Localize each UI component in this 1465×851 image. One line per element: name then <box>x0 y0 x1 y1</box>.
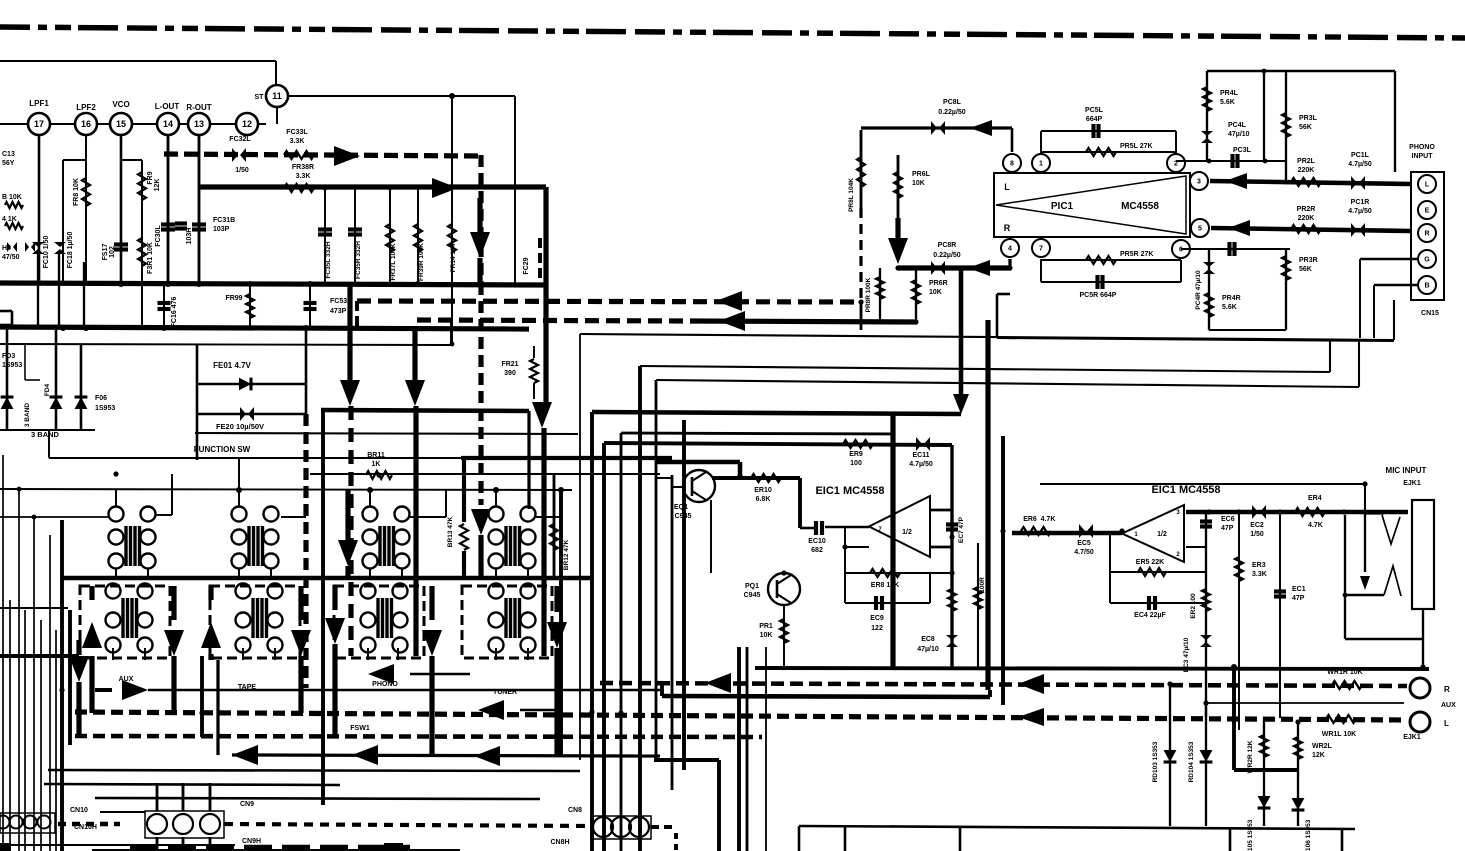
arrow up flank 1 <box>89 586 94 600</box>
pin 2 of PIC1 <box>1167 154 1185 172</box>
svg-text:682: 682 <box>811 547 823 554</box>
svg-text:3.3K: 3.3K <box>290 138 305 145</box>
resistor FR37L 100K <box>389 187 391 283</box>
diode FD4 <box>55 327 58 430</box>
op-amp EIC1 half 2 <box>1122 505 1184 562</box>
svg-text:1S953: 1S953 <box>95 405 115 412</box>
wire feedback L verticals <box>1040 131 1042 154</box>
svg-text:FC53: FC53 <box>330 298 347 305</box>
wire jack switch arrow <box>1364 513 1366 572</box>
capacitor FC29 dashed vertical <box>538 238 542 285</box>
switch cluster row2 1 <box>106 584 121 599</box>
wire pin4 to PC8R line <box>1008 259 1011 268</box>
svg-text:FR14 104: FR14 104 <box>450 243 457 272</box>
svg-text:13: 13 <box>194 119 204 129</box>
svg-text:47P: 47P <box>1221 525 1234 532</box>
wire emitter down <box>710 500 712 573</box>
wire - top dash-dot border line <box>0 27 1465 38</box>
svg-text:LPF2: LPF2 <box>76 103 96 112</box>
connector CN9 <box>145 811 224 838</box>
wire aux mid line <box>1206 702 1404 704</box>
thick vertical x1003 <box>1001 436 1005 705</box>
capacitor EC3 47u/10 <box>1200 635 1212 640</box>
svg-text:10K: 10K <box>929 289 942 296</box>
svg-text:5.6K: 5.6K <box>1220 99 1235 106</box>
svg-text:10K: 10K <box>912 180 925 187</box>
svg-text:PR4L: PR4L <box>1220 90 1239 97</box>
svg-text:FE20 10µ/50V: FE20 10µ/50V <box>216 422 264 431</box>
thick vertical with down arrow A <box>347 285 352 380</box>
svg-text:RD106 1S953: RD106 1S953 <box>1305 819 1312 851</box>
wire pin14 down <box>167 135 170 285</box>
svg-text:1/50: 1/50 <box>235 167 249 174</box>
wire corner x654 to x719 <box>654 758 719 762</box>
wire phono L line <box>1210 181 1411 184</box>
svg-text:4.7µ/50: 4.7µ/50 <box>1348 161 1372 168</box>
svg-text:3 BAND: 3 BAND <box>31 430 60 439</box>
capacitor EC9 122 <box>845 602 930 604</box>
svg-text:PR6R: PR6R <box>929 280 948 287</box>
svg-text:1: 1 <box>1039 161 1043 168</box>
svg-text:FR8 10K: FR8 10K <box>73 178 80 206</box>
wire cluster feed line <box>0 489 572 490</box>
capacitor FC10 1/50 <box>32 242 44 247</box>
resistor PR3L 56K <box>1285 71 1287 181</box>
op-amp EIC1 half 1 <box>869 496 930 557</box>
wire mid rail vertical <box>1263 71 1265 161</box>
svg-text:PR2R: PR2R <box>1297 206 1316 213</box>
svg-text:1/2: 1/2 <box>1157 531 1167 538</box>
wire pin8 drop <box>1011 128 1014 152</box>
svg-text:BR12 47K: BR12 47K <box>563 540 570 571</box>
wire feedback R verticals <box>1040 259 1042 282</box>
svg-text:FC35L 332H: FC35L 332H <box>325 241 332 278</box>
svg-text:3 BAND: 3 BAND <box>24 403 31 428</box>
svg-text:WR1R 10K: WR1R 10K <box>1327 669 1362 676</box>
wire bundle link to collector <box>656 460 740 465</box>
svg-text:EC8: EC8 <box>921 636 935 643</box>
svg-text:PR1: PR1 <box>759 623 773 630</box>
wire drops to clusters row1 <box>115 490 117 506</box>
capacitor FC16 476 <box>163 285 165 327</box>
svg-text:56K: 56K <box>1299 124 1312 131</box>
switch cluster row1 C <box>363 507 378 522</box>
wire long top line to mic <box>1040 483 1365 485</box>
svg-text:14: 14 <box>163 119 173 129</box>
transistor EQ1 C945 <box>683 470 715 502</box>
svg-text:G: G <box>1424 257 1430 264</box>
resistor BR13 47K <box>461 456 672 460</box>
svg-text:11: 11 <box>272 91 282 101</box>
arrow down x546 <box>532 402 552 428</box>
capacitor PC1L 4.7u/50 <box>1351 176 1357 190</box>
pin 1 of PIC1 <box>1032 154 1050 172</box>
wire left edge box <box>0 310 12 313</box>
svg-text:B 10K: B 10K <box>2 194 22 201</box>
op-amp PIC1 box <box>994 173 1190 237</box>
wire segments between pins <box>0 123 28 125</box>
arrow left on R output line <box>719 311 745 331</box>
wire left horizontals <box>0 607 68 609</box>
resistor F3R1 10K <box>138 238 146 266</box>
arrow left aux R 1 <box>705 673 731 693</box>
capacitor EC10 682 <box>800 527 814 530</box>
connector CN10 <box>0 813 55 833</box>
resistor PR2L 220K <box>1291 178 1321 186</box>
arrow right on R line <box>432 178 458 198</box>
wire thin bus 3 <box>0 344 451 345</box>
wire columns between buses left <box>37 254 39 327</box>
svg-text:AUX: AUX <box>1441 702 1456 709</box>
wire pin4 line corner <box>996 294 999 338</box>
svg-text:220K: 220K <box>1298 167 1315 174</box>
svg-text:EC2: EC2 <box>1250 522 1264 529</box>
svg-text:47P: 47P <box>1292 595 1305 602</box>
svg-text:CN10: CN10 <box>70 807 88 814</box>
wire pin17 down to bus <box>38 135 41 283</box>
svg-text:EC4 22µF: EC4 22µF <box>1134 612 1166 619</box>
arrow left phono R <box>1228 220 1250 236</box>
diode RD104 1S353 <box>1205 703 1207 826</box>
svg-text:PR8L 104K: PR8L 104K <box>848 178 855 212</box>
svg-text:E: E <box>1425 208 1430 215</box>
wire bottom rail of phono network <box>1209 329 1286 331</box>
svg-text:100: 100 <box>850 460 862 467</box>
switch cluster row1 B <box>232 507 247 522</box>
resistor PR4L 5.6K <box>1206 71 1208 128</box>
svg-text:RD104 1S353: RD104 1S353 <box>1188 741 1195 782</box>
svg-text:ER6: ER6 <box>1023 516 1037 523</box>
capacitor EC6 47P <box>1205 512 1207 717</box>
svg-text:EQ1: EQ1 <box>674 504 688 511</box>
resistor WR1R 10K <box>1332 681 1362 689</box>
svg-text:EC7 47P: EC7 47P <box>958 516 965 543</box>
feedback loop stage2 <box>1109 533 1111 603</box>
svg-text:PR5L 27K: PR5L 27K <box>1120 143 1153 150</box>
node pin 12 <box>236 113 258 135</box>
pin 3 of PIC1 <box>1190 172 1208 190</box>
capacitor FC35L 332H <box>324 187 326 283</box>
resistor WR2R 12K <box>1263 717 1265 770</box>
svg-text:TAPE: TAPE <box>238 684 256 691</box>
svg-text:INPUT: INPUT <box>1412 153 1434 160</box>
diode RD105 1S953 <box>1263 770 1265 826</box>
wire PC8R line <box>898 265 1010 270</box>
svg-text:EIC1 MC4558: EIC1 MC4558 <box>1151 484 1220 496</box>
arrow left aux L <box>1018 708 1044 726</box>
svg-text:56Y: 56Y <box>2 160 15 167</box>
wire dashed from CN10 <box>58 822 120 827</box>
svg-text:16: 16 <box>81 119 91 129</box>
wire stubs under row2 clusters <box>112 648 114 660</box>
junction dots texture <box>376 472 381 477</box>
svg-text:CN9H: CN9H <box>242 838 261 845</box>
svg-text:4: 4 <box>1008 246 1012 253</box>
capacitor EC7 47P <box>946 522 958 526</box>
arrow down in switch area 2 <box>471 509 491 535</box>
wire FE right rail <box>305 328 308 414</box>
wire long line y443 thick <box>604 443 952 445</box>
svg-text:3.3K: 3.3K <box>296 173 311 180</box>
wire R-channel thick line <box>199 184 546 189</box>
svg-text:BR11: BR11 <box>367 452 385 459</box>
resistor FR14 104 <box>451 96 453 345</box>
svg-text:FC10 1/50: FC10 1/50 <box>43 236 50 269</box>
arrow left PHONO <box>368 664 394 684</box>
wire vertical x561 <box>559 490 563 756</box>
arrow down flank 4 <box>298 586 303 620</box>
svg-text:12K: 12K <box>1312 752 1325 759</box>
svg-text:PC4R 47µ/10: PC4R 47µ/10 <box>1195 270 1202 310</box>
wire long line y412 thick <box>592 412 961 414</box>
svg-text:PR4R: PR4R <box>1222 295 1241 302</box>
resistor PR5L 27K <box>1041 151 1176 153</box>
capacitor FE20 10u/50V <box>197 413 306 416</box>
svg-text:FR21: FR21 <box>501 361 518 368</box>
svg-text:FR37L 100K: FR37L 100K <box>390 243 397 280</box>
resistor BR12 47K <box>553 474 556 578</box>
jack contact springs <box>1382 515 1400 544</box>
thick vertical x893 <box>890 412 895 668</box>
svg-text:100R: 100R <box>979 577 986 593</box>
svg-text:F06: F06 <box>95 395 107 402</box>
capacitor FC30L 103H <box>161 222 175 226</box>
svg-text:FD4: FD4 <box>44 383 51 396</box>
svg-text:47/50: 47/50 <box>2 254 20 261</box>
svg-text:4.7µ/50: 4.7µ/50 <box>909 461 933 468</box>
svg-text:FR38R: FR38R <box>292 164 314 171</box>
svg-text:ER3: ER3 <box>1252 562 1266 569</box>
svg-text:VCO: VCO <box>112 100 129 109</box>
wire dashed from CN8 <box>651 825 676 829</box>
wire big bottom rectangle <box>799 826 1355 829</box>
wire long line y380 <box>656 380 1359 387</box>
svg-text:R: R <box>1444 685 1450 694</box>
wire left vertical with down arrow <box>76 640 81 655</box>
pin 6 of PIC1 <box>1172 240 1190 258</box>
capacitor FC35R 332H <box>354 187 356 283</box>
svg-text:12K: 12K <box>154 179 161 192</box>
svg-text:PHONO: PHONO <box>372 681 398 688</box>
svg-text:103P: 103P <box>213 226 230 233</box>
svg-text:PC5R 664P: PC5R 664P <box>1080 292 1117 299</box>
wire long line y433 <box>621 433 893 434</box>
pin G of CN15 <box>1418 250 1436 268</box>
svg-text:FC30L: FC30L <box>155 225 162 247</box>
switch cluster row2 2 <box>236 584 251 599</box>
svg-text:RD105 1S953: RD105 1S953 <box>1247 819 1254 851</box>
capacitor EC1 47P <box>1279 512 1281 718</box>
wire - thin feed line to pin 11 <box>0 60 276 62</box>
vertical bundle left <box>579 334 581 760</box>
svg-text:10K: 10K <box>760 632 773 639</box>
svg-text:47µ/10: 47µ/10 <box>1228 131 1250 138</box>
wire cluster top-right links <box>156 514 172 516</box>
svg-text:FC33L: FC33L <box>286 129 308 136</box>
wire dashed corner down <box>355 301 359 330</box>
svg-text:FUNCTION SW: FUNCTION SW <box>194 445 251 454</box>
wire long line y334 <box>580 334 1394 340</box>
capacitor FS17 102 <box>114 242 128 246</box>
wire R-side network <box>1181 248 1290 250</box>
wire bottom-left horizontals <box>48 770 580 771</box>
svg-text:FC31B: FC31B <box>213 217 235 224</box>
jack AUX R <box>1410 678 1430 698</box>
wire solid line y696 <box>662 696 990 697</box>
resistor WR2L 12K <box>1297 722 1299 826</box>
svg-text:220K: 220K <box>1298 215 1315 222</box>
wire left thick vertical 1 <box>60 520 64 851</box>
svg-text:EIC1 MC4558: EIC1 MC4558 <box>815 485 884 497</box>
wire contact common <box>1345 594 1384 597</box>
svg-text:12: 12 <box>242 119 252 129</box>
svg-text:1/2: 1/2 <box>902 529 912 536</box>
svg-text:PR2L: PR2L <box>1297 158 1316 165</box>
svg-text:FR99: FR99 <box>225 295 242 302</box>
wire bottom dashed bar <box>130 845 410 851</box>
svg-text:4.7K: 4.7K <box>1308 522 1323 529</box>
pin 5 of PIC1 <box>1191 219 1209 237</box>
dashed vertical x880 continuation <box>860 302 863 330</box>
wire fd box <box>0 429 95 431</box>
svg-text:L: L <box>1004 182 1010 192</box>
resistor PR4R 5.6K <box>1205 293 1213 317</box>
junction dots on buses <box>36 280 42 286</box>
resistor WR1L 10K <box>1326 715 1356 723</box>
svg-text:FC35R 332H: FC35R 332H <box>355 241 362 279</box>
wire phono R line <box>1211 228 1411 231</box>
resistor FR99 <box>249 285 251 327</box>
svg-text:FC29: FC29 <box>523 257 530 274</box>
wire FE left rail <box>196 344 199 460</box>
arrow down flank 6 <box>429 586 434 620</box>
connector CN8 <box>591 816 651 839</box>
wire pin16 down <box>85 135 87 283</box>
svg-text:PR6L: PR6L <box>912 171 931 178</box>
resistor PR3R 56K <box>1285 249 1287 330</box>
resistor FR21 390 <box>533 346 535 358</box>
op-amp PIC1 triangle <box>996 176 1186 234</box>
switch cluster row2 box 3 <box>334 586 424 658</box>
wire dashed aux R line <box>600 683 1407 686</box>
svg-text:PIC1: PIC1 <box>1051 201 1074 212</box>
wire from pin 11 to line <box>288 95 515 97</box>
wire jack to ground line <box>1345 638 1423 641</box>
resistor on x1209 <box>1202 589 1210 611</box>
dashed vertical mid <box>303 414 308 688</box>
svg-text:1S953: 1S953 <box>2 362 22 369</box>
svg-text:RD103 1S353: RD103 1S353 <box>1152 741 1159 782</box>
thick vertical x961 with arrow <box>959 269 964 396</box>
svg-text:3.3K: 3.3K <box>1252 571 1267 578</box>
arrow left PC8R line <box>968 260 990 276</box>
wire opamp2 output line <box>1186 510 1408 515</box>
svg-text:PC3L: PC3L <box>1233 147 1252 154</box>
wire phono B <box>1374 284 1418 287</box>
svg-text:CN9: CN9 <box>240 801 254 808</box>
pin R of CN15 <box>1418 224 1436 242</box>
svg-text:EC6: EC6 <box>1221 516 1235 523</box>
wire thick link line y410 <box>321 410 529 411</box>
svg-text:LPF1: LPF1 <box>29 99 49 108</box>
svg-text:4.7µ/50: 4.7µ/50 <box>1348 208 1372 215</box>
pin E of CN15 <box>1418 201 1436 219</box>
svg-text:56K: 56K <box>1299 266 1312 273</box>
capacitor PC5R 664P <box>1041 281 1181 283</box>
svg-text:PR8R 100K: PR8R 100K <box>865 277 872 312</box>
arrow left aux R 2 <box>1018 674 1044 694</box>
wire loop right vertical x952 <box>950 445 953 668</box>
arrow up flank 3 <box>208 586 213 600</box>
wire dashed tape bus 1 <box>75 712 1407 720</box>
capacitor EC8 47u/10 <box>946 635 958 640</box>
svg-text:5.6K: 5.6K <box>1222 304 1237 311</box>
resistor FR21 390 and down arrow C <box>543 187 548 404</box>
capacitor FC30R 103H <box>192 222 206 226</box>
svg-text:CN15: CN15 <box>1421 310 1439 317</box>
svg-text:PR5R 27K: PR5R 27K <box>1120 251 1153 258</box>
diode FD6 1S953 <box>80 344 83 430</box>
svg-text:PC8L: PC8L <box>943 99 962 106</box>
svg-text:EC9: EC9 <box>870 615 884 622</box>
resistor PR6R 10K <box>915 268 917 322</box>
svg-text:WR1L 10K: WR1L 10K <box>1322 731 1357 738</box>
capacitor PC1R 4.7u/50 <box>1351 223 1357 237</box>
wire left thick vertical 2 <box>68 610 72 745</box>
svg-text:BR13 47K: BR13 47K <box>447 517 454 548</box>
thick vertical with down arrow B <box>412 329 417 380</box>
svg-text:0.22µ/50: 0.22µ/50 <box>938 109 965 116</box>
wire top network rail <box>1207 70 1395 73</box>
capacitor FC53 473P <box>309 285 311 327</box>
svg-text:PC4L: PC4L <box>1228 122 1247 129</box>
svg-text:7: 7 <box>1039 246 1043 253</box>
wire stub x218 <box>216 660 219 755</box>
svg-text:FR9: FR9 <box>147 171 154 184</box>
resistor ER6 4.7K <box>1012 531 1122 536</box>
wire pin15 down <box>120 135 123 285</box>
transistor PQ1 C945 <box>768 573 800 605</box>
wire bottom thin lines <box>0 844 235 846</box>
wire opamp output stubs <box>930 509 952 512</box>
wire left feed horizontals <box>0 516 108 518</box>
arrow left on L output line <box>716 291 742 311</box>
capacitor EC5 4.7/50 <box>1079 524 1085 538</box>
svg-text:122: 122 <box>871 625 883 632</box>
svg-text:17: 17 <box>34 119 44 129</box>
svg-text:F3R1 10K: F3R1 10K <box>147 242 154 274</box>
wire thick y775 <box>1234 768 1298 772</box>
resistor ER4 4.7K <box>1295 508 1325 516</box>
svg-text:EC5: EC5 <box>1077 540 1091 547</box>
svg-text:6: 6 <box>1179 247 1183 254</box>
svg-text:FC32L: FC32L <box>229 136 251 143</box>
svg-text:ST: ST <box>255 94 265 101</box>
svg-text:664P: 664P <box>1086 116 1103 123</box>
resistor EB 100R on x978 <box>977 543 979 667</box>
svg-text:5: 5 <box>1198 226 1202 233</box>
svg-text:C13: C13 <box>2 151 15 158</box>
arrow down in switch area 1 <box>345 490 350 540</box>
svg-text:ER9: ER9 <box>849 451 863 458</box>
wire PQ1 up to feedback <box>783 572 785 574</box>
diode RD103 1S353 <box>1169 686 1171 826</box>
wire dashed tape bus 2 <box>75 736 762 737</box>
svg-text:C945: C945 <box>744 592 761 599</box>
svg-text:FD3: FD3 <box>2 353 15 360</box>
resistor PR2R 220K <box>1291 225 1321 233</box>
svg-text:FR39R 104K: FR39R 104K <box>418 243 425 281</box>
